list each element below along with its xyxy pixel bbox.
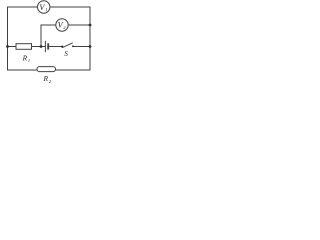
svg-text:R: R: [43, 74, 49, 83]
svg-text:1: 1: [28, 58, 30, 63]
svg-text:1: 1: [45, 7, 47, 12]
svg-text:S: S: [64, 50, 68, 58]
svg-text:R: R: [22, 53, 28, 62]
